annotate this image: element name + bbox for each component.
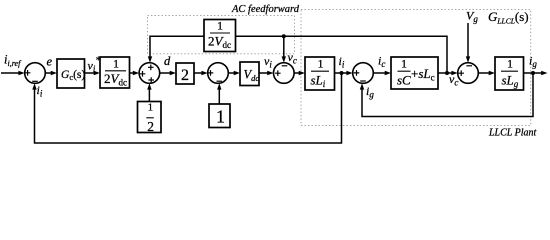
- dashed box G_LLCL / LLCL Plant: [301, 10, 531, 126]
- svg-text:2: 2: [181, 67, 189, 84]
- arrowhead into Vdc: [234, 71, 240, 75]
- arrowhead into Gc: [51, 71, 57, 75]
- arrowhead into block2: [170, 71, 176, 75]
- sign minus J6 top: [466, 65, 472, 67]
- wire J4 to 1/sLi: [294, 72, 302, 74]
- wire Vg drop: [467, 23, 469, 60]
- wire vc drop to J4: [283, 36, 285, 59]
- sign minus J3 bottom: [217, 80, 223, 82]
- svg-text:1: 1: [401, 57, 407, 71]
- arrowhead into J6: [451, 71, 457, 75]
- wire J3 to Vdc: [228, 72, 237, 74]
- svg-text:1: 1: [113, 57, 119, 71]
- sign plus J5 left: [354, 70, 360, 76]
- svg-text:1: 1: [318, 57, 324, 71]
- block 1: [209, 104, 230, 128]
- wire J6 to 1/sLg: [478, 72, 492, 74]
- arrowhead output: [541, 71, 547, 75]
- block Vdc: [240, 62, 259, 86]
- svg-text:2: 2: [147, 119, 154, 134]
- wire 1/sC+sLc to J6 with node: [438, 72, 455, 74]
- wire Gc to 1/2Vdc: [85, 72, 98, 74]
- sign plus J1 left: [25, 70, 31, 76]
- svg-text:d: d: [164, 54, 171, 68]
- wire ig feedback: [362, 73, 533, 117]
- block 1/(2Vdc): [100, 57, 130, 88]
- svg-text:sC: sC: [397, 73, 411, 88]
- sign plus J6 left: [458, 70, 464, 76]
- arrowhead J2 top: [148, 56, 152, 62]
- summing junction J3: [208, 63, 229, 84]
- block 1/(2Vdc) feedforward: [204, 20, 236, 52]
- arrowhead J6 top: [466, 56, 470, 62]
- sign plus J4 left: [275, 70, 281, 76]
- arrowhead into sLg: [489, 71, 495, 75]
- wire J1 to Gc: [45, 72, 54, 74]
- arrowhead into 2Vdc: [94, 71, 100, 75]
- summing junction J6: [458, 63, 479, 84]
- wire vc riser and top feedforward line: [236, 36, 448, 73]
- wire J5 to 1/sC+sLc: [373, 72, 388, 74]
- wire input to J1: [1, 72, 21, 74]
- sign minus J4 top: [282, 65, 288, 67]
- svg-text:LLCL Plant: LLCL Plant: [488, 128, 537, 139]
- wire block2 to J3: [194, 72, 205, 74]
- node dot vc: [445, 71, 449, 75]
- arrowhead into J2: [133, 71, 139, 75]
- block 1/2: [138, 102, 162, 133]
- wire J2 to block 2: [160, 72, 173, 74]
- block 1/sC+sLc: [391, 57, 438, 89]
- arrowhead J3 bottom: [217, 83, 221, 89]
- arrowhead J2 bottom: [147, 83, 151, 89]
- summing junction J2: [139, 63, 160, 84]
- wire 1/sLg to output: [524, 72, 545, 74]
- arrowhead into sLi: [299, 71, 305, 75]
- sign plus J2 top: [148, 65, 154, 71]
- arrowhead J4 top: [282, 56, 286, 62]
- node dot ii: [340, 71, 344, 75]
- arrowhead into sC block: [385, 71, 391, 75]
- summing junction J5: [353, 63, 374, 84]
- dashed box AC feedforward: [148, 16, 295, 54]
- arrowhead into J5: [346, 71, 352, 75]
- node dot feedforward: [282, 34, 286, 38]
- block 2: [176, 63, 194, 84]
- wire feedforward left segment: [150, 36, 204, 59]
- wire one block to J3: [218, 88, 220, 105]
- svg-text:1: 1: [216, 107, 225, 127]
- summing junction J4: [274, 63, 295, 84]
- wire 1/sLi to J5 with node: [335, 72, 351, 74]
- arrowhead input: [18, 71, 24, 75]
- wire half block to J2: [148, 88, 150, 102]
- svg-text:1: 1: [217, 19, 223, 33]
- block 1/sLi: [305, 57, 335, 90]
- wire 1/2Vdc to J2: [130, 72, 137, 74]
- sign plus J2 left: [140, 71, 146, 77]
- arrowhead J1 bottom: [32, 83, 36, 89]
- sign minus J1 bottom: [32, 80, 38, 82]
- svg-text:AC feedforward: AC feedforward: [231, 4, 300, 15]
- svg-text:e: e: [47, 55, 53, 69]
- sign plus J3 left: [208, 70, 214, 76]
- wire Vdc to J4: [259, 72, 271, 74]
- summing junction J1: [25, 63, 46, 84]
- arrowhead into J3: [201, 71, 207, 75]
- node dot ig: [531, 71, 535, 75]
- svg-text:1: 1: [148, 102, 154, 114]
- arrowhead into J4: [267, 71, 273, 75]
- wire ii feedback: [35, 73, 342, 143]
- block 1/sLg: [495, 57, 524, 90]
- svg-text:1: 1: [507, 57, 513, 71]
- sign plus J2 bottom: [148, 77, 154, 83]
- arrowhead J5 bottom: [360, 83, 364, 89]
- sign minus J5 bottom: [360, 80, 366, 82]
- svg-text:Gc(s): Gc(s): [61, 69, 85, 82]
- block Gc(s): [57, 59, 85, 88]
